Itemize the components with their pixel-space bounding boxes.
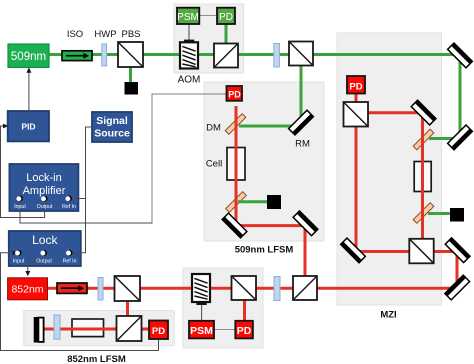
svg-text:PD: PD <box>237 325 252 337</box>
svg-text:Output: Output <box>36 258 52 264</box>
svg-text:Lock: Lock <box>32 233 58 247</box>
svg-text:HWP: HWP <box>94 29 116 40</box>
svg-text:Lock-in: Lock-in <box>26 172 61 184</box>
svg-text:Ref In: Ref In <box>63 258 77 264</box>
svg-text:PD: PD <box>152 326 165 337</box>
svg-text:509nm: 509nm <box>11 51 46 63</box>
svg-text:PID: PID <box>21 121 35 131</box>
svg-text:852nm LFSM: 852nm LFSM <box>67 354 126 364</box>
svg-text:AOM: AOM <box>178 75 201 86</box>
svg-text:Amplifier: Amplifier <box>23 185 66 197</box>
svg-text:Input: Input <box>13 258 25 264</box>
svg-text:Ref In: Ref In <box>62 204 76 210</box>
svg-text:PSM: PSM <box>190 325 213 337</box>
svg-text:RM: RM <box>295 139 310 150</box>
svg-text:MZI: MZI <box>380 310 396 321</box>
svg-text:Cell: Cell <box>206 159 222 170</box>
svg-text:PD: PD <box>219 12 233 23</box>
svg-text:PD: PD <box>228 89 241 99</box>
svg-text:Signal: Signal <box>96 115 128 127</box>
svg-text:ISO: ISO <box>67 29 83 40</box>
svg-text:852nm: 852nm <box>11 284 43 296</box>
svg-text:PBS: PBS <box>121 29 140 40</box>
svg-text:PSM: PSM <box>177 12 199 23</box>
svg-text:509nm LFSM: 509nm LFSM <box>235 245 294 256</box>
svg-text:Source: Source <box>94 128 130 140</box>
svg-text:DM: DM <box>206 123 221 134</box>
svg-text:Output: Output <box>37 204 53 210</box>
svg-text:Input: Input <box>14 204 26 210</box>
svg-text:PD: PD <box>349 81 362 92</box>
